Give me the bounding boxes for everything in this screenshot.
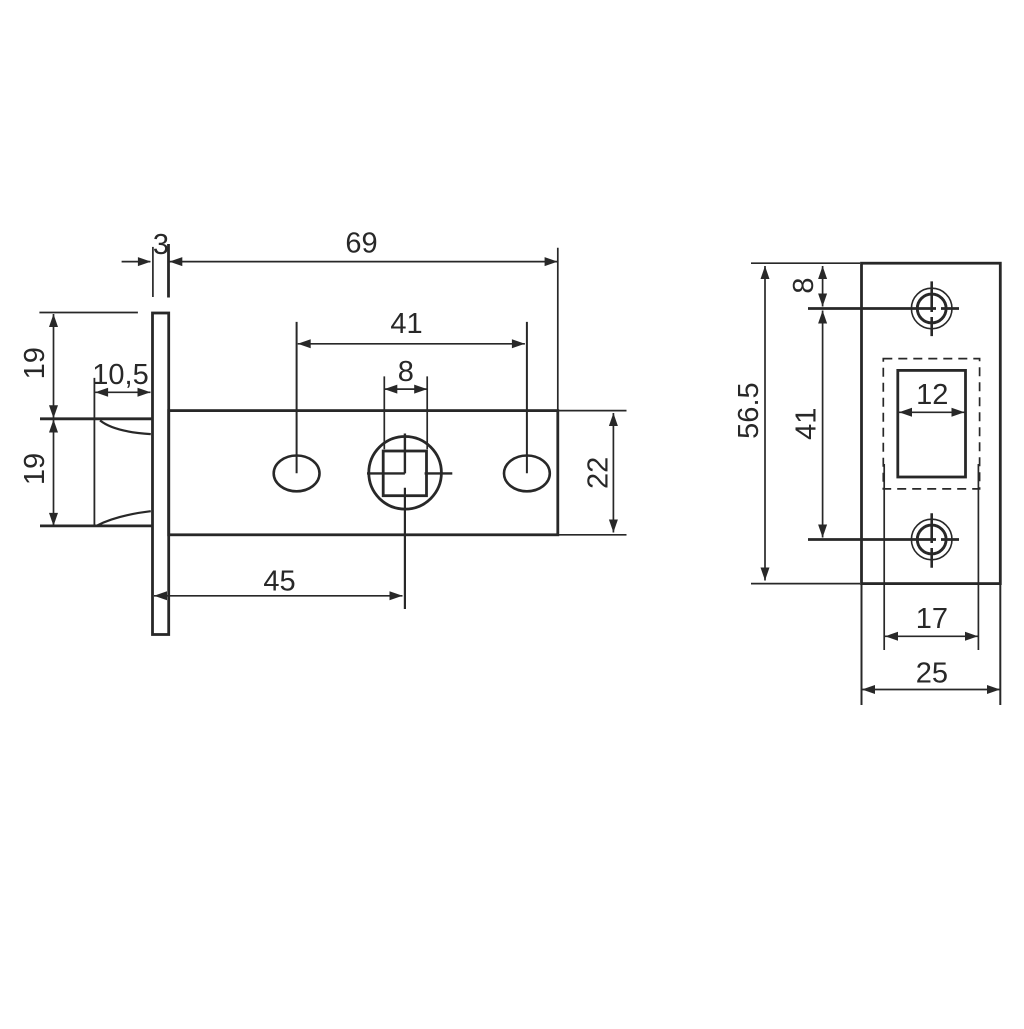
dim 8 line [384,388,427,390]
dim 41 extension right (to oval center) [526,322,528,473]
dim 22 line [612,413,614,533]
dim 19 lower line [53,420,55,526]
screw hole top inner circle [917,294,946,323]
dim 10,5 line [95,391,150,393]
screw hole bottom outer circle [911,519,952,560]
svg-text:22: 22 [583,457,615,489]
latch faceplate (side view) [153,313,169,635]
svg-text:56.5: 56.5 [733,382,765,438]
dim 56.5 line [764,266,766,581]
oval hole left [274,456,320,492]
strike plate outline [862,263,1001,583]
bottom extension line (56.5) [751,583,860,585]
svg-text:69: 69 [345,228,377,260]
svg-text:17: 17 [916,603,948,635]
dim 25 extension right [999,585,1001,705]
dim 69 extension right [557,248,559,411]
screw hole top outer circle [911,288,952,329]
latch body [169,411,558,535]
svg-text:19: 19 [19,347,51,379]
dim 3 extension left [152,247,154,297]
latch bolt bottom bevel curve [98,511,151,525]
dim 22 bottom extension [559,534,627,536]
svg-text:8: 8 [788,278,820,294]
dim 45 line [154,595,403,597]
spindle center mark vertical upper [404,434,406,474]
dim 69 line [169,261,557,263]
latch bolt left edge / extension line 10,5 [93,378,95,527]
dim 8 right line [822,266,824,307]
svg-text:25: 25 [916,658,948,690]
latch bolt top bevel curve [100,420,151,434]
latch bolt bottom edge (extended left) [40,525,152,528]
svg-text:41: 41 [790,408,822,440]
svg-text:19: 19 [19,453,51,485]
spindle centerline lower / extension 45 [404,488,406,609]
dim 19 upper line [53,314,55,418]
screw hole top centerline horizontal (thick) [808,307,959,310]
latch hole dashed rectangle [883,359,979,489]
dim 19 upper top extension [39,312,137,314]
svg-text:10,5: 10,5 [92,359,148,391]
screw hole top centerline vertical [930,281,933,336]
dim 41 extension left (to oval center) [296,322,298,473]
svg-text:8: 8 [398,356,414,388]
svg-text:12: 12 [916,379,948,411]
svg-text:41: 41 [390,308,422,340]
spindle square hole [383,451,426,496]
dim 12 line [899,411,965,413]
svg-text:3: 3 [153,229,169,261]
dim 3 line and arrows [122,261,151,263]
screw hole bottom centerline vertical [930,513,933,568]
latch hole inner rectangle [898,370,966,477]
svg-text:45: 45 [263,566,295,598]
dim 22 top extension [559,410,627,412]
oval hole right [504,456,550,492]
dim 41 line [298,343,525,345]
screw hole bottom inner circle [917,525,946,554]
dim 8 extension right [426,376,428,449]
dim 41 right line [822,311,824,538]
spindle circle [369,437,442,510]
latch bolt top edge (extended left) [40,417,152,420]
dim 17 extension right [977,464,979,650]
screw hole bottom centerline horizontal (thick) [808,538,959,541]
dim 3 extension right (thick) [167,244,170,298]
dim 17 line [885,635,978,637]
top extension line (56.5 / 8) [751,262,860,264]
dim 8 extension left [383,376,385,449]
dim 25 extension left [861,585,863,705]
spindle center mark horizontal [367,472,452,474]
dim 25 line [862,689,1000,691]
dim 17 extension left [883,464,885,650]
